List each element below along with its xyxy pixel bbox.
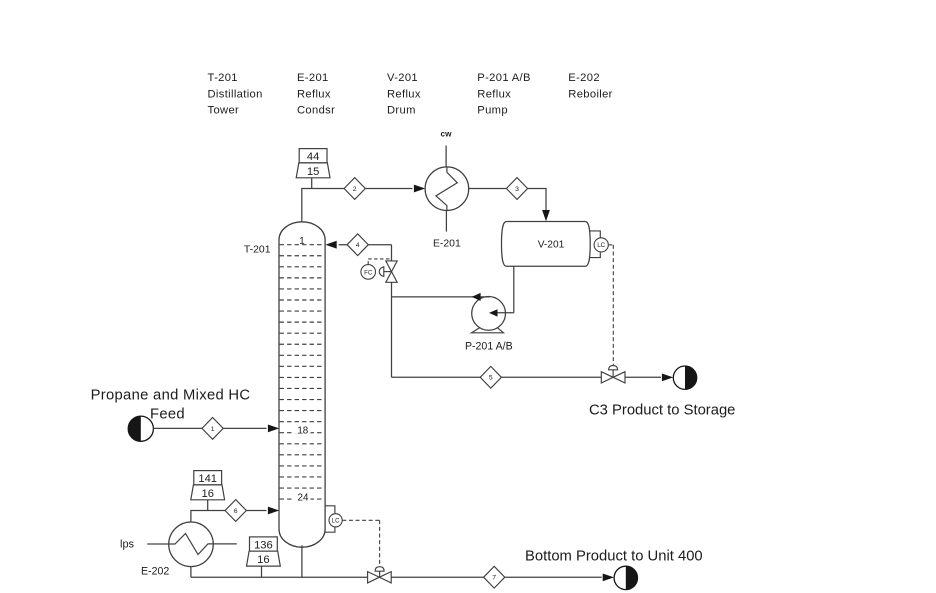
wire drum outlet to pump suction (494, 266, 514, 313)
svg-text:E-201: E-201 (433, 238, 461, 249)
svg-text:5: 5 (489, 375, 493, 382)
svg-text:V-201: V-201 (538, 240, 565, 251)
wire tower bottoms outlet (301, 545, 303, 577)
arrow into condenser E-201 (414, 185, 425, 193)
pump P-201 A/B (472, 297, 506, 333)
svg-text:Distillation: Distillation (208, 88, 263, 100)
tower T-201 distillation tower (279, 222, 325, 547)
wire reflux riser and product drop line (391, 245, 393, 378)
wire feed line (153, 427, 266, 429)
wire cw inlet (445, 146, 447, 168)
svg-text:V-201: V-201 (387, 72, 418, 84)
label Bottom Product to Unit 400 (525, 548, 703, 564)
node stream diamond 3 (506, 178, 527, 200)
wire reboiler bottoms down (190, 567, 192, 578)
arrow vapor return into tower (268, 507, 279, 515)
label lps (120, 538, 135, 550)
stream flag 136/16 (247, 537, 281, 577)
svg-text:LC: LC (597, 242, 605, 249)
svg-text:16: 16 (257, 554, 269, 566)
svg-text:Drum: Drum (387, 104, 416, 116)
wire condensate outlet stub (213, 543, 237, 545)
wire C3 product line (392, 376, 662, 378)
flow controller FC (361, 265, 376, 280)
svg-text:136: 136 (254, 540, 273, 552)
wire pump discharge reflux line (392, 296, 490, 298)
arrow bottom product (603, 574, 614, 582)
control valve on bottoms line (368, 567, 392, 583)
off-page connector bottom product (614, 566, 637, 589)
label P-201 A/B (465, 340, 513, 352)
wire cw outlet (445, 211, 447, 232)
svg-text:24: 24 (298, 493, 309, 504)
svg-text:FC: FC (364, 269, 373, 276)
svg-text:Propane and Mixed HC: Propane and Mixed HC (91, 388, 251, 404)
node stream diamond 6 (225, 500, 246, 522)
wire reflux overhead line tower to condenser (301, 189, 412, 224)
label E-202 (141, 565, 169, 577)
label cw (441, 130, 453, 139)
svg-text:E-202: E-202 (568, 72, 600, 84)
label tray 18 (295, 425, 311, 437)
svg-text:T-201: T-201 (244, 245, 271, 256)
svg-text:cw: cw (441, 130, 453, 139)
svg-text:1: 1 (299, 236, 304, 247)
svg-text:P-201 A/B: P-201 A/B (465, 340, 513, 352)
node stream diamond 1 (202, 418, 223, 440)
arrow into drum V-201 (542, 210, 550, 221)
wire dashed LC signal to bottoms valve (342, 520, 379, 566)
svg-text:6: 6 (234, 508, 238, 515)
arrow into pump center (489, 309, 498, 316)
svg-text:Reflux: Reflux (297, 88, 331, 100)
label tray 1 (298, 236, 307, 248)
svg-text:C3 Product to Storage: C3 Product to Storage (589, 403, 735, 419)
svg-text:4: 4 (356, 242, 360, 249)
svg-text:7: 7 (492, 575, 496, 582)
wire reboiler return line (191, 510, 267, 522)
stream flag 141/16 (191, 471, 225, 511)
svg-text:lps: lps (120, 538, 135, 550)
arrow reflux into tower top tray (325, 241, 336, 249)
heat exchanger E-202 reboiler (169, 522, 214, 567)
svg-text:LC: LC (332, 519, 340, 525)
wire condenser to drum V-201 (469, 188, 546, 210)
node stream diamond 7 (484, 566, 505, 588)
svg-text:T-201: T-201 (208, 72, 238, 84)
svg-text:141: 141 (198, 473, 217, 485)
label tray 24 (295, 492, 311, 504)
svg-text:Reflux: Reflux (477, 88, 511, 100)
svg-text:Feed: Feed (150, 407, 185, 423)
arrow C3 product to storage (662, 374, 673, 382)
svg-text:2: 2 (353, 186, 357, 193)
svg-text:Reflux: Reflux (387, 88, 421, 100)
svg-text:E-202: E-202 (141, 565, 169, 577)
label C3 Product to Storage (589, 403, 735, 419)
wire bottoms product line (191, 576, 602, 578)
svg-text:E-201: E-201 (297, 72, 329, 84)
svg-text:Bottom Product to Unit 400: Bottom Product to Unit 400 (525, 548, 703, 564)
arrow feed into tower (268, 425, 279, 433)
heat exchanger E-201 condenser (425, 167, 469, 211)
level controller LC at tower bottom (325, 506, 342, 532)
svg-text:15: 15 (307, 166, 319, 178)
svg-text:3: 3 (515, 186, 519, 193)
level controller LC on V-201 (590, 231, 609, 258)
arrow reflux flow direction (472, 293, 481, 301)
drum V-201 reflux drum (502, 222, 591, 267)
off-page connector feed (128, 416, 153, 441)
wire dashed FC signal (368, 259, 390, 265)
svg-text:P-201 A/B: P-201 A/B (477, 72, 531, 84)
control valve on C3 product line (601, 366, 625, 383)
label E-201 (433, 238, 461, 249)
off-page connector C3 product (673, 366, 696, 389)
svg-text:1: 1 (211, 426, 215, 433)
wire reflux return to tower (339, 244, 392, 246)
svg-text:Condsr: Condsr (297, 104, 335, 116)
control valve FC on reflux line (379, 261, 397, 282)
equipment title block labels (208, 72, 613, 116)
svg-text:Reboiler: Reboiler (568, 88, 612, 100)
node stream diamond 5 (480, 366, 501, 388)
label Propane and Mixed HC Feed (91, 388, 251, 423)
wire dashed LC signal to C3 product valve (608, 245, 613, 366)
svg-text:44: 44 (307, 151, 319, 163)
svg-text:18: 18 (297, 425, 308, 436)
label T-201 at tower (244, 245, 271, 256)
svg-text:Tower: Tower (208, 104, 240, 116)
wire lps steam inlet (147, 543, 168, 545)
svg-text:16: 16 (201, 488, 213, 500)
stream flag 44/15 (296, 149, 330, 189)
node stream diamond 4 (347, 234, 368, 256)
node stream diamond 2 (344, 178, 365, 200)
svg-text:Pump: Pump (477, 104, 508, 116)
